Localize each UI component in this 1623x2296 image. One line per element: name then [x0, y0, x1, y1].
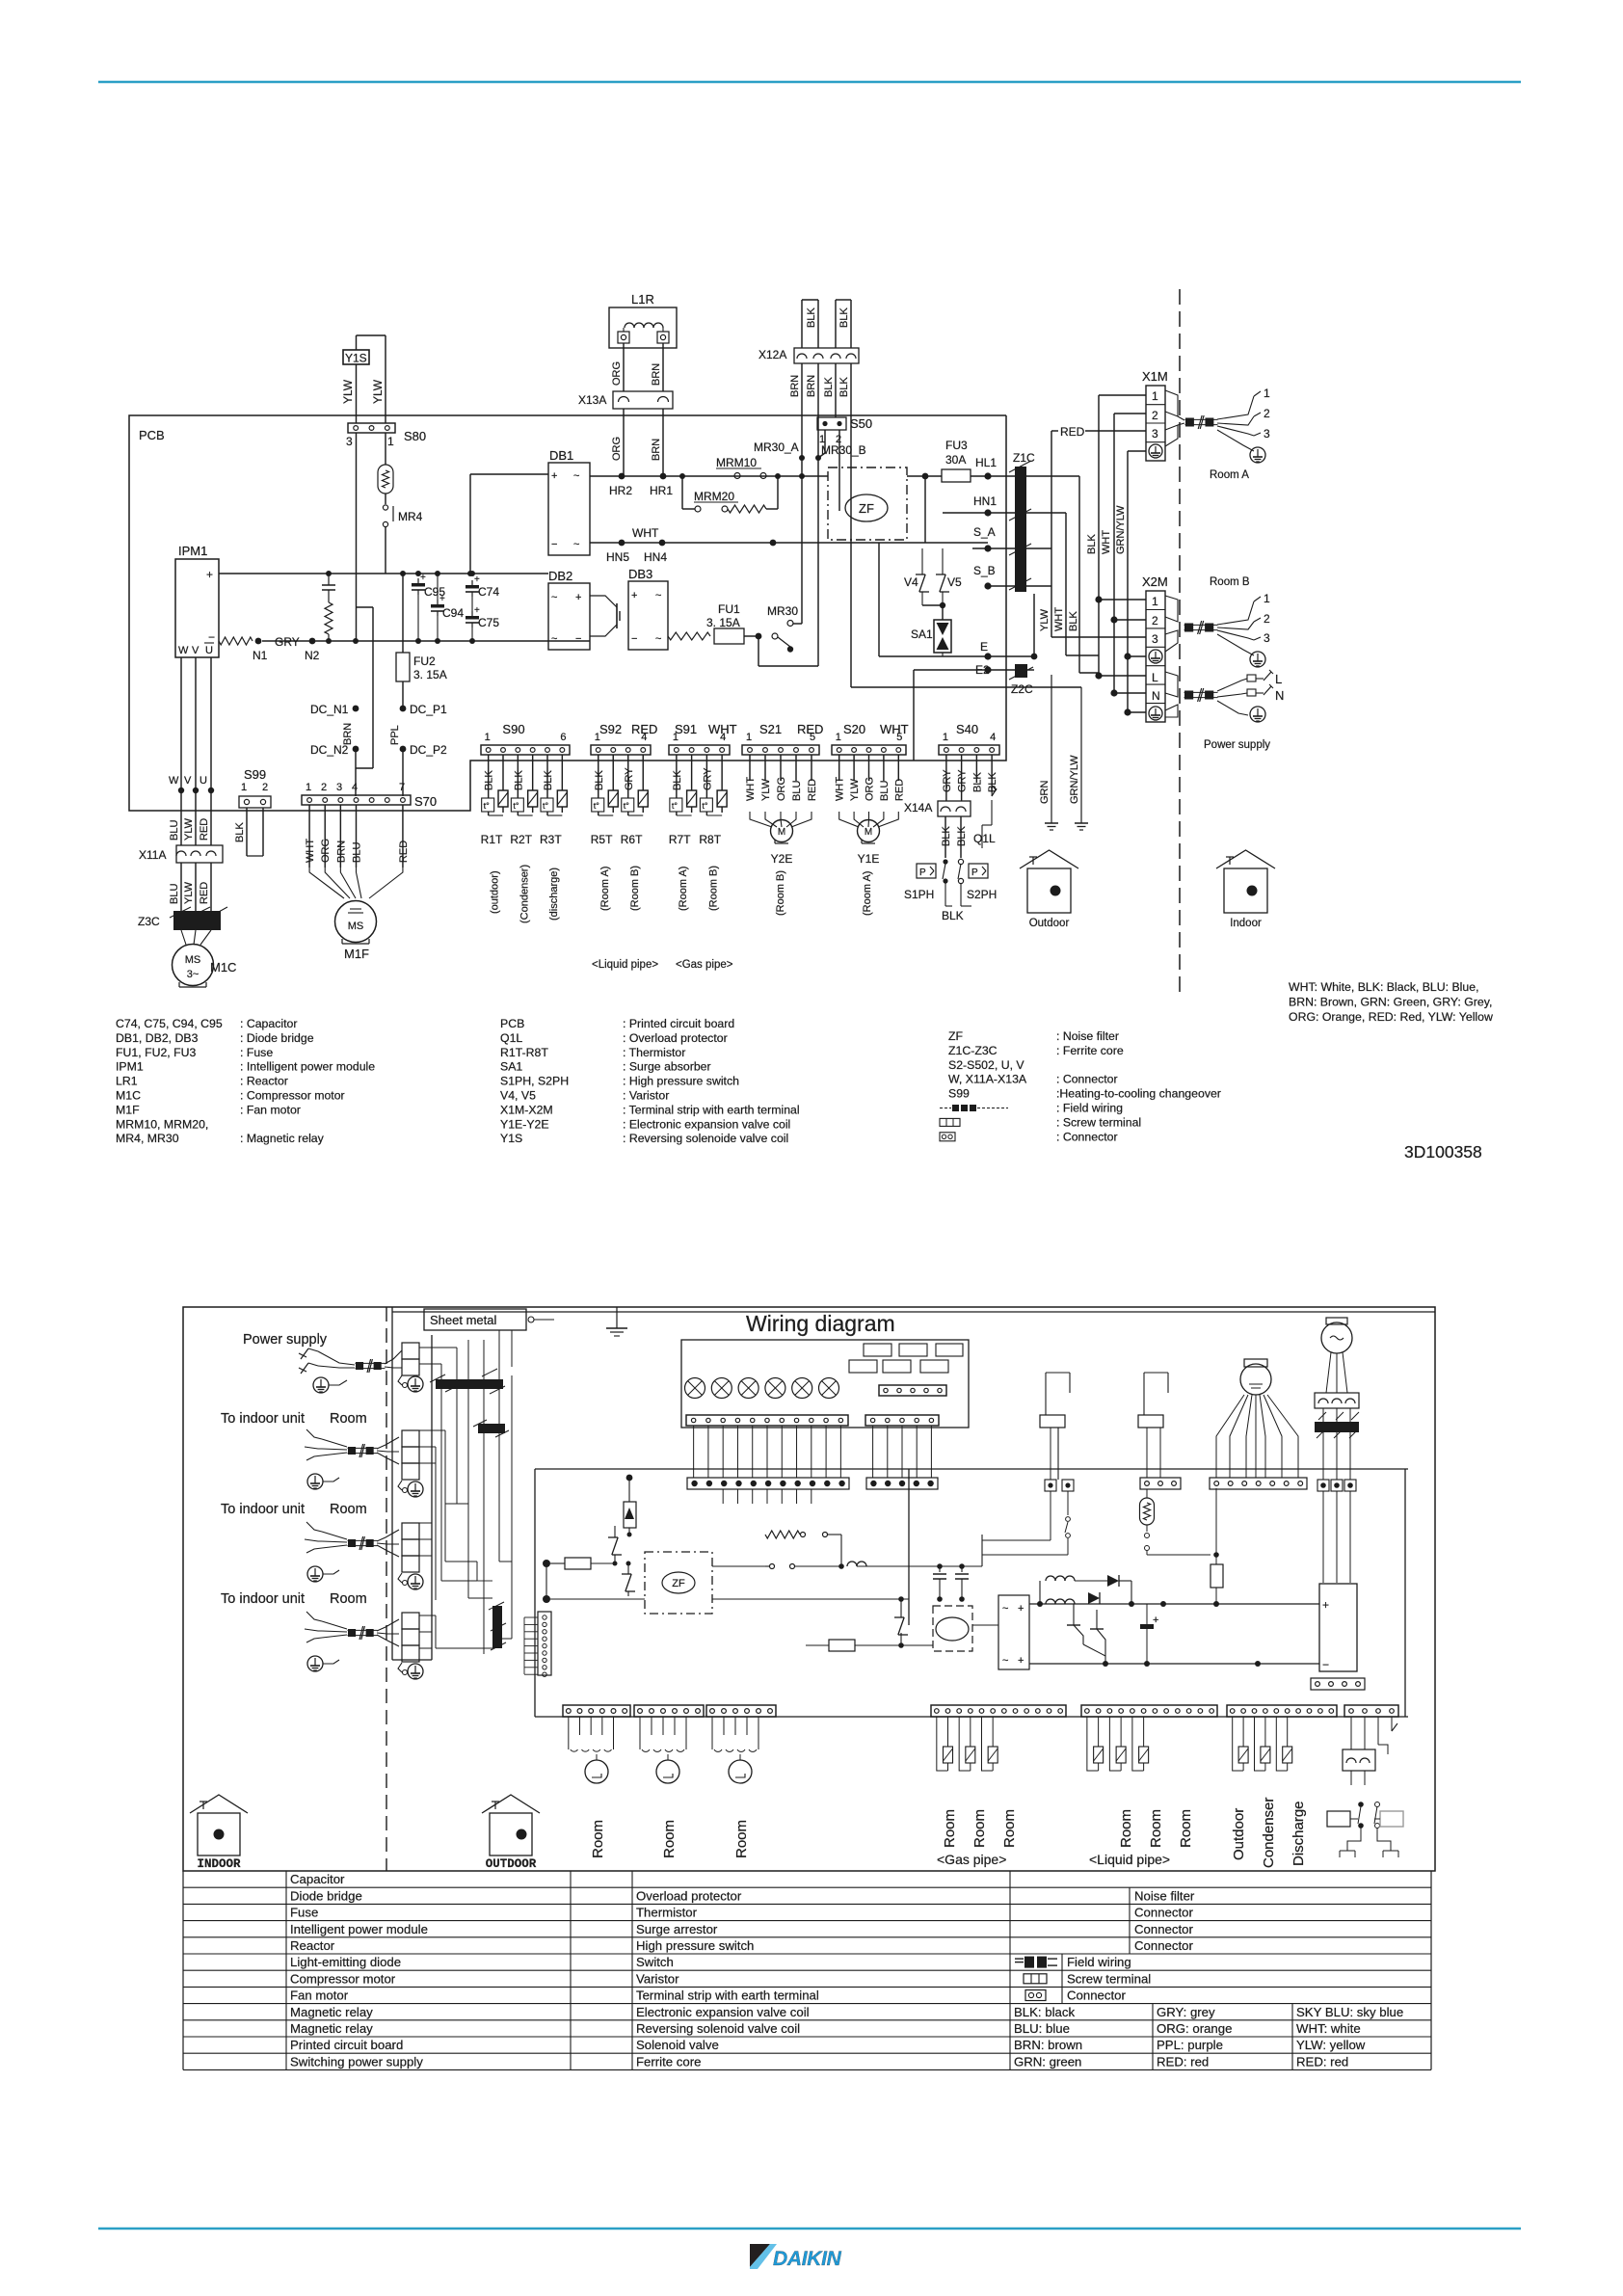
node S_B — [973, 564, 1051, 590]
svg-text:Y1E-Y2E: Y1E-Y2E — [500, 1117, 549, 1131]
high pressure switch S2PH — [958, 859, 997, 901]
svg-text:Intelligent power module: Intelligent power module — [290, 1922, 428, 1936]
svg-text:X13A: X13A — [578, 393, 606, 407]
svg-text:FU1: FU1 — [718, 602, 740, 616]
svg-text:To indoor unit: To indoor unit — [221, 1411, 305, 1427]
svg-text:HR1: HR1 — [650, 484, 673, 497]
wire S80pin3 junction — [355, 768, 357, 796]
connector S99 — [239, 767, 271, 808]
svg-text:(Room B): (Room B) — [629, 866, 641, 911]
svg-text:Thermistor: Thermistor — [636, 1906, 698, 1920]
svg-text:MRM10: MRM10 — [716, 456, 757, 469]
svg-text:BLK: BLK — [956, 826, 968, 846]
svg-text:: Thermistor: : Thermistor — [623, 1046, 685, 1059]
svg-text:t°: t° — [513, 801, 519, 811]
svg-text:SKY BLU: sky blue: SKY BLU: sky blue — [1296, 2005, 1403, 2019]
relay switch MR30 — [756, 604, 818, 666]
switching power supply box — [1319, 1584, 1357, 1671]
svg-text:To indoor unit: To indoor unit — [221, 1502, 305, 1517]
svg-text:2: 2 — [1264, 407, 1270, 420]
svg-text:: Electronic expansion valve c: : Electronic expansion valve coil — [623, 1117, 790, 1131]
label WHT vert — [1101, 530, 1112, 554]
svg-text:~: ~ — [1002, 1655, 1008, 1667]
svg-text:X12A: X12A — [758, 348, 786, 361]
svg-text:SA1: SA1 — [911, 627, 933, 641]
compressor drive block — [933, 1606, 972, 1651]
wire S80 pin3 down — [356, 433, 358, 641]
svg-text:V: V — [192, 645, 200, 656]
surge absorber SA1 — [879, 543, 951, 656]
capacitor small plus — [1140, 1604, 1158, 1664]
transistor between DB2 DB3 — [590, 596, 620, 636]
wire IPM V — [184, 657, 199, 845]
terminal strip X1M — [1142, 369, 1168, 461]
wire IPM W — [169, 657, 184, 845]
thermistor R2T — [510, 755, 537, 846]
wires S40 GRY GRY BLK BLK — [942, 755, 998, 801]
wire X12A pin3 BLK down — [823, 363, 836, 417]
node DC_P1 — [400, 703, 447, 716]
svg-text:BRN: BRN — [806, 375, 817, 397]
svg-text:M1F: M1F — [116, 1103, 140, 1116]
svg-text:R6T: R6T — [621, 833, 643, 846]
pressure switch strip — [1344, 1705, 1398, 1717]
svg-text:S20: S20 — [843, 722, 865, 736]
label YLW — [371, 379, 385, 404]
title Wiring diagram — [746, 1311, 895, 1336]
wire X1M earth left — [1128, 451, 1146, 712]
wire IPM U — [200, 657, 214, 845]
wire X13A pin2 to HR1 — [651, 409, 663, 476]
capacitor and resistor branch — [322, 574, 335, 641]
svg-text:2: 2 — [321, 782, 327, 793]
house Outdoor — [1020, 850, 1078, 929]
svg-text:Connector: Connector — [1067, 1989, 1126, 2003]
X2M junction dots — [1095, 596, 1131, 715]
svg-text:Discharge: Discharge — [1290, 1801, 1307, 1866]
svg-text:Z2C: Z2C — [1011, 682, 1033, 696]
svg-text:YLW: YLW — [341, 379, 355, 404]
svg-text:Q1L: Q1L — [500, 1031, 522, 1045]
svg-text:WHT: WHT — [1101, 530, 1112, 554]
svg-text:: Capacitor: : Capacitor — [240, 1017, 297, 1030]
svg-text:RED: red: RED: red — [1157, 2054, 1209, 2069]
expansion valve coil 2 — [640, 1717, 686, 1783]
svg-text:Compressor motor: Compressor motor — [290, 1971, 396, 1986]
svg-text:MR30: MR30 — [767, 604, 798, 618]
node HN1 — [943, 494, 1066, 517]
cable power supply — [1165, 672, 1248, 717]
indoor unit group 2 — [221, 1502, 423, 1589]
table text — [290, 1872, 1403, 2069]
svg-text:Connector: Connector — [1134, 1938, 1193, 1953]
svg-text:HN4: HN4 — [644, 550, 667, 564]
plus bus — [1029, 1601, 1319, 1607]
wire YLW to X2M — [1051, 586, 1146, 637]
expansion valve strip 1 — [563, 1705, 630, 1717]
compressor connector — [1315, 1393, 1359, 1408]
svg-text:N: N — [1275, 688, 1284, 703]
node N2 bus — [304, 638, 590, 662]
svg-text:t°: t° — [484, 801, 491, 811]
house OUTDOOR — [482, 1795, 540, 1871]
svg-text:(Room A): (Room A) — [862, 871, 873, 916]
svg-text:: High pressure switch: : High pressure switch — [623, 1075, 739, 1088]
ferrite core Z3C — [138, 907, 227, 930]
wire bundle verticals — [419, 1330, 541, 1654]
pressure switch pair bottom — [1343, 1717, 1397, 1785]
label Room A — [862, 871, 873, 916]
svg-text:3. 15A: 3. 15A — [413, 668, 447, 681]
jumper X12A pins1-2 — [802, 300, 818, 348]
relay K2 — [1138, 1373, 1168, 1478]
expansion valve coil Y2E — [745, 755, 818, 866]
svg-text:FU3: FU3 — [945, 439, 968, 452]
varistor V5 — [936, 548, 962, 608]
svg-text:RED: RED — [893, 779, 905, 801]
lamp LEDs — [685, 1378, 839, 1399]
svg-text:M1C: M1C — [210, 960, 236, 974]
svg-text:Room: Room — [330, 1411, 367, 1427]
svg-text:X11A: X11A — [139, 848, 166, 862]
svg-text:BLU: BLU — [791, 781, 803, 801]
svg-text:YLW: YLW — [183, 817, 195, 841]
svg-text:MS: MS — [348, 921, 364, 932]
svg-text:C74, C75, C94, C95: C74, C75, C94, C95 — [116, 1017, 223, 1030]
svg-text:3~: 3~ — [187, 969, 200, 980]
cable Room B — [1165, 592, 1270, 667]
svg-text:Outdoor: Outdoor — [1029, 918, 1070, 929]
svg-text:ZF: ZF — [948, 1029, 964, 1043]
intelligent power module IPM1 — [175, 544, 219, 657]
svg-text:HN1: HN1 — [973, 494, 997, 508]
svg-text:GRN: green: GRN: green — [1014, 2054, 1081, 2069]
svg-text:Capacitor: Capacitor — [290, 1872, 345, 1886]
wire E2 riser — [1033, 594, 1035, 656]
transformer and rectifier — [1040, 1575, 1131, 1604]
svg-text:MR30_A: MR30_A — [754, 441, 799, 454]
svg-text:BLK: BLK — [942, 909, 964, 922]
capacitor pair bottom — [933, 1563, 969, 1602]
svg-text:S91: S91 — [675, 722, 697, 736]
svg-text:Ferrite core: Ferrite core — [636, 2054, 701, 2069]
svg-text:R1T: R1T — [481, 833, 503, 846]
main rail bottom — [535, 1716, 1408, 1718]
svg-text:t°: t° — [594, 801, 600, 811]
compressor motor M1C — [173, 930, 237, 987]
svg-text:ORG: ORG — [611, 361, 623, 386]
svg-text:YLW: YLW — [183, 881, 195, 904]
svg-text:Room: Room — [971, 1809, 988, 1848]
svg-text:RED: RED — [807, 779, 818, 801]
svg-text:S2PH: S2PH — [967, 888, 997, 901]
power switch L — [1247, 670, 1282, 686]
svg-text:L1R: L1R — [631, 292, 654, 307]
wire RED — [1051, 425, 1146, 586]
svg-text:C94: C94 — [442, 606, 464, 620]
svg-text:t°: t° — [543, 801, 549, 811]
svg-text:OUTDOOR: OUTDOOR — [486, 1857, 537, 1871]
svg-text:1: 1 — [1264, 387, 1270, 400]
label Room A — [1210, 469, 1249, 481]
lamp panel to strip wires — [694, 1426, 932, 1478]
svg-text:S40: S40 — [956, 722, 978, 736]
overload protector Q1L — [973, 787, 997, 848]
svg-text:Printed circuit board: Printed circuit board — [290, 2038, 403, 2052]
svg-text:(Room B): (Room B) — [775, 870, 786, 916]
connector X11A — [139, 845, 223, 863]
svg-text:BRN: BRN — [342, 723, 354, 745]
svg-text:GRN/YLW: GRN/YLW — [1069, 755, 1080, 804]
node MR30_B — [815, 443, 866, 461]
svg-text:BRN: Brown, GRN: Green, GRY: G: BRN: Brown, GRN: Green, GRY: Grey, — [1289, 996, 1492, 1009]
svg-text:X1M-X2M: X1M-X2M — [500, 1103, 553, 1116]
svg-text:WHT: WHT — [1053, 607, 1065, 631]
svg-text:: Connector: : Connector — [1056, 1130, 1118, 1143]
svg-text:+: + — [1322, 1598, 1329, 1612]
svg-text:BRN: brown: BRN: brown — [1014, 2038, 1082, 2052]
relay contact MRM10 — [716, 456, 766, 479]
wire DB1 plus link — [467, 474, 548, 576]
label HN4 — [644, 550, 667, 564]
svg-text:4: 4 — [990, 732, 996, 743]
diode bridge DB1 — [548, 448, 590, 555]
label Power supply — [1204, 739, 1270, 751]
svg-text:: Reversing solenoide valve co: : Reversing solenoide valve coil — [623, 1132, 788, 1145]
svg-text:Room: Room — [942, 1809, 958, 1848]
svg-text:3. 15A: 3. 15A — [706, 616, 740, 629]
lamp panel box — [681, 1340, 969, 1428]
ferrite core Z2C — [1009, 664, 1034, 696]
gas pipe label — [937, 1852, 1006, 1867]
resistor on S80 pin1 — [378, 433, 393, 494]
svg-text:M1F: M1F — [344, 947, 369, 961]
main rail left segment — [535, 1469, 629, 1717]
svg-text:BLU: BLU — [352, 842, 363, 863]
IGBT pair — [1067, 1604, 1105, 1664]
capacitor C74 — [466, 574, 499, 607]
svg-text:~: ~ — [1002, 1603, 1008, 1615]
relay contact MRM20 — [682, 476, 778, 513]
svg-text:HL1: HL1 — [975, 456, 997, 469]
svg-text:6: 6 — [560, 732, 566, 743]
svg-text:t°: t° — [624, 801, 630, 811]
svg-text:Z1C-Z3C: Z1C-Z3C — [948, 1044, 998, 1057]
LED symbol — [624, 1475, 636, 1537]
capacitor C94 — [431, 574, 464, 641]
svg-text:RED: RED — [1060, 425, 1085, 439]
connector S40 — [939, 722, 999, 755]
svg-text:MS: MS — [185, 954, 201, 966]
svg-text:C74: C74 — [478, 585, 499, 599]
power earth — [1250, 707, 1265, 722]
svg-text:Outdoor: Outdoor — [1231, 1808, 1247, 1860]
gas room labels — [942, 1809, 1018, 1848]
expansion valve coil 1 — [569, 1717, 614, 1783]
svg-text:R3T: R3T — [540, 833, 562, 846]
svg-text:X14A: X14A — [904, 801, 932, 814]
liquid pipe strip — [1081, 1705, 1217, 1717]
svg-text:~: ~ — [551, 592, 557, 603]
thermistor R7T — [669, 755, 697, 846]
Room A terminal labels — [1250, 387, 1270, 463]
heater resistor — [1140, 1489, 1211, 1555]
svg-text:ORG: Orange, RED: Red, YLW: Ye: ORG: Orange, RED: Red, YLW: Yellow — [1289, 1010, 1493, 1024]
wire X13A pin1 to HR2 — [611, 409, 624, 476]
svg-text:IPM1: IPM1 — [116, 1060, 144, 1074]
connector S21 — [742, 722, 823, 755]
svg-text:RED: RED — [631, 722, 657, 736]
label HR1 — [650, 484, 673, 497]
svg-text:FU2: FU2 — [413, 654, 436, 668]
label discharge — [548, 868, 560, 921]
screw terminal strip A — [687, 1478, 849, 1489]
label BRN — [342, 723, 354, 745]
svg-text:(Condenser): (Condenser) — [519, 865, 530, 923]
svg-text:V4: V4 — [904, 575, 918, 589]
connector S20 — [832, 722, 909, 755]
svg-text:S80: S80 — [404, 429, 426, 443]
table symbols — [1015, 1957, 1057, 1968]
fan motor bottom — [1240, 1359, 1271, 1395]
svg-text:GRY: GRY — [957, 769, 969, 792]
svg-text:SA1: SA1 — [500, 1060, 522, 1074]
svg-text:3: 3 — [1152, 632, 1158, 646]
inner top edge — [392, 1311, 1435, 1313]
svg-text:ORG: ORG — [611, 437, 623, 461]
svg-text:GRN/YLW: GRN/YLW — [1115, 505, 1127, 554]
ferrite core Z1C — [1009, 451, 1035, 592]
compressor ferrite bar — [1315, 1412, 1359, 1438]
svg-text:MR4, MR30: MR4, MR30 — [116, 1132, 179, 1145]
svg-text:WHT: WHT — [880, 722, 909, 736]
svg-text:L: L — [1152, 671, 1158, 684]
wires S70 to fan motor — [305, 805, 410, 898]
label HR2 — [609, 484, 632, 497]
lamp panel small rects — [849, 1344, 963, 1373]
capacitor C95 — [412, 573, 445, 641]
svg-text:DC_N1: DC_N1 — [310, 703, 349, 716]
svg-text:GRY: GRY — [275, 635, 300, 649]
node HL1 — [975, 456, 997, 480]
pressure contact pair — [1327, 1802, 1403, 1857]
wire Y1S-S80 — [357, 335, 386, 423]
svg-text:: Surge absorber: : Surge absorber — [623, 1060, 711, 1074]
svg-text:RED: RED — [797, 722, 823, 736]
X2M feed wires — [1099, 600, 1146, 712]
expansion valve strip 2 — [634, 1705, 704, 1717]
svg-text:LR1: LR1 — [116, 1075, 138, 1088]
compressor square connectors — [1317, 1480, 1356, 1583]
svg-text:1: 1 — [1152, 389, 1158, 403]
svg-text:PCB: PCB — [500, 1017, 524, 1030]
label HN5 — [606, 550, 629, 564]
svg-text:Electronic expansion valve coi: Electronic expansion valve coil — [636, 2005, 810, 2019]
svg-text:Connector: Connector — [1134, 1906, 1193, 1920]
svg-text:Reactor: Reactor — [290, 1938, 335, 1953]
svg-text:Fan motor: Fan motor — [290, 1989, 349, 2003]
pipe label gas — [676, 959, 733, 971]
thermistor R5T — [591, 755, 619, 846]
svg-text:: Connector: : Connector — [1056, 1073, 1118, 1086]
wire L1R to X13A BRN — [651, 343, 663, 391]
fan motor M1F — [335, 901, 377, 962]
svg-text:Room: Room — [590, 1820, 606, 1858]
svg-text:Z3C: Z3C — [138, 915, 160, 928]
svg-text:RED: RED — [199, 882, 210, 904]
rail to lamp panel — [629, 1469, 1408, 1625]
svg-text:Room: Room — [661, 1820, 678, 1858]
svg-text:1: 1 — [306, 782, 311, 793]
room labels valves — [590, 1820, 750, 1858]
svg-text:: Terminal strip with earth te: : Terminal strip with earth terminal — [623, 1103, 800, 1116]
svg-text:BLK: BLK — [1086, 534, 1098, 554]
svg-text:: Fuse: : Fuse — [240, 1046, 273, 1059]
node MR30_A — [754, 441, 805, 461]
svg-text:V4, V5: V4, V5 — [500, 1089, 536, 1103]
svg-text:R1T-R8T: R1T-R8T — [500, 1046, 548, 1059]
svg-text:3: 3 — [1152, 427, 1158, 441]
jumper X12A pins3-4 — [836, 300, 851, 348]
svg-text:S1PH, S2PH: S1PH, S2PH — [500, 1075, 569, 1088]
fan connector strip — [1210, 1478, 1307, 1489]
svg-text:BLK: BLK — [971, 772, 983, 792]
svg-text:(Room A): (Room A) — [599, 867, 611, 911]
svg-text:−: − — [1322, 1658, 1329, 1671]
svg-text:+: + — [575, 592, 581, 603]
svg-text:ORG: ORG — [320, 839, 332, 863]
svg-text:: Magnetic relay: : Magnetic relay — [240, 1132, 325, 1145]
power supply feed — [243, 1332, 402, 1393]
svg-text:BLK: BLK — [594, 770, 605, 790]
svg-text:R8T: R8T — [699, 833, 721, 846]
fuse FU1 — [668, 602, 758, 644]
svg-text:YLW: YLW — [1039, 608, 1051, 631]
svg-text:t°: t° — [702, 801, 708, 811]
svg-text:(Room A): (Room A) — [678, 867, 689, 911]
label Room B — [775, 870, 786, 916]
chassis ground — [606, 1307, 627, 1336]
house Indoor — [1216, 850, 1275, 929]
svg-text:DB1: DB1 — [549, 448, 573, 463]
svg-text:+: + — [474, 605, 480, 616]
svg-text:N2: N2 — [305, 649, 320, 662]
fuse FU3 — [942, 439, 1006, 482]
noise filter ZF bottom — [645, 1552, 712, 1614]
right loop wires — [1404, 1469, 1406, 1717]
connector S80 — [346, 423, 426, 448]
svg-text:+: + — [1153, 1615, 1158, 1626]
liquid thermistors — [1087, 1717, 1149, 1771]
house INDOOR — [190, 1795, 248, 1871]
svg-text:~: ~ — [655, 590, 661, 601]
ocd thermistors — [1233, 1717, 1292, 1771]
wire DC links — [356, 607, 403, 796]
vertical connector strip 9pin — [524, 1612, 551, 1676]
wire main line HR2 HR1 — [590, 473, 828, 480]
svg-text:N1: N1 — [253, 649, 268, 662]
svg-text:S99: S99 — [244, 767, 266, 782]
svg-text:S1PH: S1PH — [904, 888, 934, 901]
fuse mid — [806, 1599, 933, 1651]
svg-text:Room: Room — [330, 1591, 367, 1607]
svg-text:IPM1: IPM1 — [178, 544, 207, 558]
PCB board outline — [129, 415, 1006, 811]
svg-text:DB3: DB3 — [628, 567, 652, 581]
svg-text:WHT: White, BLK: Black, BLU: B: WHT: White, BLK: Black, BLU: Blue, — [1289, 980, 1479, 994]
svg-text:: Overload protector: : Overload protector — [623, 1031, 728, 1045]
label Room A — [599, 867, 611, 911]
